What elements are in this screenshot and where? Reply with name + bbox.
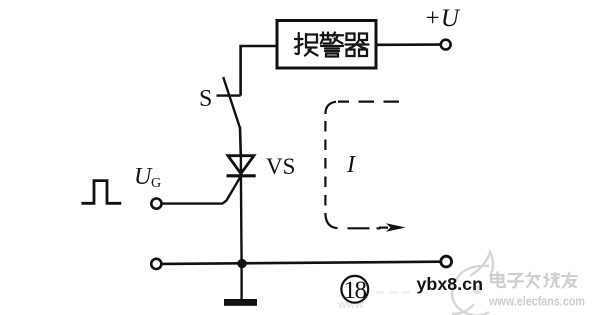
烧 bbox=[544, 273, 559, 287]
svg-text:VS: VS bbox=[266, 154, 295, 179]
alarm box U (报警器) bbox=[277, 21, 376, 69]
svg-text:I: I bbox=[346, 152, 356, 178]
ground wire bbox=[240, 264, 242, 300]
wire box-right to +U terminal bbox=[376, 43, 441, 46]
bottom wire bbox=[162, 262, 441, 264]
bottom-right terminal circle bbox=[441, 256, 452, 267]
thyristor cathode bar bbox=[227, 174, 256, 177]
警 bbox=[321, 33, 344, 57]
wire switch to thyristor bbox=[239, 127, 242, 156]
dashed current loop top bbox=[338, 100, 399, 102]
watermark text 电子发烧友 bbox=[491, 272, 577, 287]
junction dot bbox=[237, 259, 246, 268]
svg-text:G: G bbox=[151, 176, 161, 191]
current loop arrow bbox=[379, 227, 388, 229]
thyristor vertical through bbox=[240, 155, 242, 176]
svg-text:ybx8.cn: ybx8.cn bbox=[417, 274, 484, 294]
ground bar bbox=[224, 299, 257, 306]
svg-text:+U: +U bbox=[424, 5, 461, 32]
circled 18 bbox=[341, 276, 368, 303]
UG terminal circle bbox=[151, 199, 161, 209]
wire thyristor to bottom junction bbox=[240, 175, 243, 264]
+U terminal circle bbox=[441, 40, 451, 50]
友 bbox=[562, 273, 577, 288]
svg-text:www.elecfans.com: www.elecfans.com bbox=[488, 294, 585, 309]
svg-text:S: S bbox=[199, 86, 212, 112]
子 bbox=[508, 274, 523, 287]
switch S blade bbox=[223, 77, 240, 128]
switch S contact line bbox=[217, 94, 241, 96]
报 bbox=[295, 33, 318, 56]
dashed current loop left bbox=[325, 102, 336, 114]
pulse symbol bbox=[82, 181, 122, 204]
wire box-left to corner bbox=[241, 46, 277, 96]
svg-text:18: 18 bbox=[344, 277, 367, 304]
thyristor gate lead bbox=[162, 176, 241, 204]
alarm box label 报警器 bbox=[295, 33, 369, 57]
watermark swirl logo bbox=[452, 252, 493, 315]
dashed current loop bottom bbox=[348, 227, 381, 229]
bottom-left terminal circle bbox=[151, 259, 161, 269]
电 bbox=[491, 272, 505, 287]
器 bbox=[346, 34, 369, 57]
thyristor VS triangle bbox=[228, 156, 254, 174]
发 bbox=[526, 273, 539, 288]
